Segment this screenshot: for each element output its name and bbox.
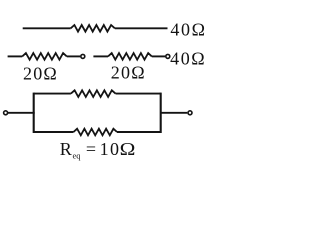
wire [8,55,23,57]
svg-text:eq: eq [73,150,82,160]
wire [152,55,165,57]
resistor 40ohm top [71,25,115,32]
wire top-right [116,93,161,95]
node terminal right [188,111,192,115]
svg-text:Ω: Ω [120,139,136,159]
wire [23,27,71,29]
wire [8,112,35,114]
resistor 20ohm right [108,53,152,60]
svg-text:40Ω: 40Ω [170,20,206,40]
wire left vertical [33,93,35,133]
resistor parallel top [71,90,116,97]
wire right vertical [160,93,162,133]
svg-text:20Ω: 20Ω [111,63,146,83]
wire bottom-right [117,131,161,133]
node terminal middle [81,54,85,58]
resistor 20ohm left [22,53,67,60]
node terminal row2 right [166,54,170,58]
wire [93,55,108,57]
wire top-left [34,93,71,95]
svg-text:R: R [60,139,72,159]
svg-text:20Ω: 20Ω [23,63,58,83]
wire [161,112,188,114]
svg-text:40Ω: 40Ω [170,49,206,69]
svg-text:10: 10 [100,139,121,159]
wire [67,55,80,57]
resistor parallel bottom [74,129,118,136]
node terminal left [4,111,8,115]
wire bottom-left [34,131,74,133]
svg-text:=: = [86,139,96,159]
wire [115,27,168,29]
